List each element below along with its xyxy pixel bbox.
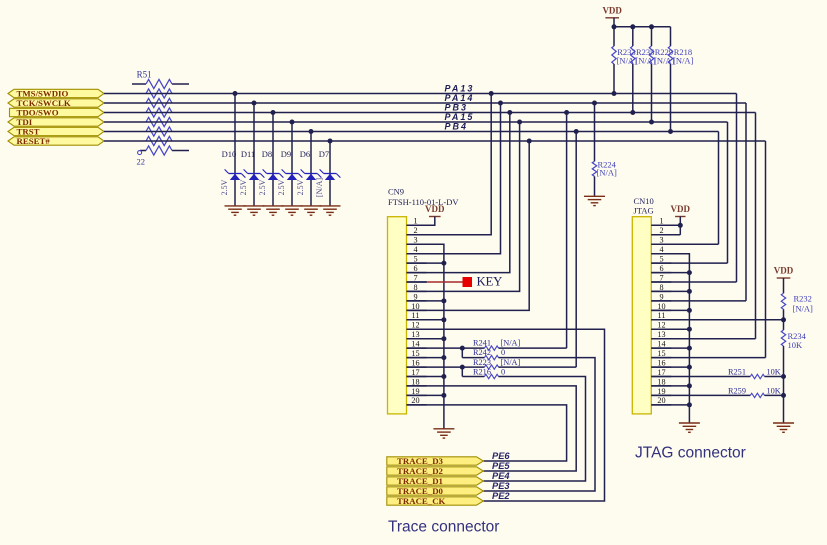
svg-text:R242: R242 bbox=[473, 348, 491, 357]
svg-text:VDD: VDD bbox=[774, 266, 794, 276]
wire CN9 pin18 to TRACE_D2 bbox=[407, 386, 577, 471]
svg-text:Trace connector: Trace connector bbox=[388, 519, 499, 536]
wire CN9 pin20 to TRACE_D3 bbox=[407, 405, 567, 461]
svg-text:JTAG: JTAG bbox=[634, 206, 654, 216]
svg-text:PE3: PE3 bbox=[492, 481, 510, 491]
resistor R218 [N/A] bbox=[670, 27, 672, 46]
svg-text:0: 0 bbox=[501, 348, 505, 357]
net label flag TDO/SWO bbox=[10, 108, 105, 116]
ground for R232/R234 rail bbox=[773, 422, 794, 424]
power symbol VDD (right) bbox=[777, 277, 791, 279]
svg-text:FTSH-110-01-L-DV: FTSH-110-01-L-DV bbox=[388, 197, 459, 207]
svg-text:20: 20 bbox=[411, 396, 419, 405]
branch wire pin14 to R242 bbox=[461, 348, 463, 358]
wire CN9 pin6 to PB3 column bbox=[407, 113, 510, 273]
wire CN10 pin5 from TDI column bbox=[651, 262, 727, 264]
svg-text:TDI: TDI bbox=[17, 117, 33, 127]
svg-text:R232: R232 bbox=[794, 294, 812, 304]
ground for CN10 bbox=[679, 422, 700, 424]
svg-text:12: 12 bbox=[411, 321, 419, 330]
svg-text:8: 8 bbox=[413, 283, 417, 292]
svg-text:KEY: KEY bbox=[477, 275, 503, 289]
zener diode D9 bbox=[290, 120, 295, 125]
svg-text:VDD: VDD bbox=[425, 204, 445, 214]
svg-text:9: 9 bbox=[659, 292, 663, 301]
wire row PA13 (TMS/SWDIO) bbox=[104, 93, 737, 95]
ground for D10 bbox=[225, 205, 246, 207]
wire CN10 pin3 from TRST column bbox=[651, 243, 718, 245]
net label flag TMS/SWDIO bbox=[8, 89, 104, 97]
power symbol VDD (top) bbox=[605, 17, 619, 19]
svg-text:12: 12 bbox=[657, 321, 665, 330]
svg-text:5: 5 bbox=[413, 255, 417, 264]
wire CN9 pin17 to ground rail bbox=[407, 376, 444, 378]
svg-text:4: 4 bbox=[659, 245, 663, 254]
svg-text:TRACE_D2: TRACE_D2 bbox=[397, 466, 444, 476]
svg-text:[N/A]: [N/A] bbox=[793, 304, 813, 314]
resistor R229 [N/A] bbox=[649, 24, 654, 29]
wire CN9 pin1 to VDD bbox=[407, 217, 435, 226]
wire CN9 pin19 to ground rail bbox=[407, 394, 444, 396]
svg-text:D11: D11 bbox=[241, 149, 255, 159]
wire CN9 pin13 to ground rail bbox=[407, 338, 444, 340]
svg-text:TMS/SWDIO: TMS/SWDIO bbox=[17, 89, 69, 99]
svg-text:D8: D8 bbox=[262, 149, 272, 159]
wire R242 to TRACE_D0 bbox=[483, 358, 595, 491]
zener diode D6 bbox=[309, 129, 314, 134]
svg-text:8: 8 bbox=[659, 283, 663, 292]
svg-text:0: 0 bbox=[501, 367, 505, 376]
zener diode D7 bbox=[328, 139, 333, 144]
net label flag TRACE_D2 bbox=[387, 467, 484, 475]
wire CN9 pin15 to ground rail bbox=[407, 357, 444, 359]
CN10 pin stubs bbox=[651, 224, 671, 226]
svg-text:1: 1 bbox=[659, 217, 663, 226]
zener diode D11 bbox=[252, 101, 257, 106]
svg-text:2.5V: 2.5V bbox=[239, 179, 248, 195]
svg-text:VDD: VDD bbox=[671, 204, 691, 214]
wire CN10 pin13 from TDO column bbox=[651, 338, 755, 340]
svg-text:VDD: VDD bbox=[602, 5, 622, 15]
resistor R224 [N/A] pull-down bbox=[592, 101, 597, 106]
wire CN9 pin3 to ground rail bbox=[407, 244, 444, 429]
svg-text:R259: R259 bbox=[728, 387, 746, 396]
wire CN10 pin17 through R251 bbox=[651, 376, 750, 378]
wire CN10 pin4 to ground rail bbox=[651, 254, 689, 423]
wire CN9 pin5 to ground rail bbox=[407, 262, 444, 264]
net label flag TDI bbox=[8, 118, 104, 126]
svg-text:[N/A]: [N/A] bbox=[501, 358, 521, 367]
connector CN9 body bbox=[388, 217, 407, 414]
ground for CN9 bbox=[433, 428, 454, 430]
svg-text:4: 4 bbox=[413, 245, 417, 254]
resistor R241 [N/A] bbox=[485, 346, 499, 350]
svg-text:2.5V: 2.5V bbox=[220, 179, 229, 195]
wire CN9 pin7 KEY bbox=[407, 281, 428, 283]
svg-text:11: 11 bbox=[412, 311, 420, 320]
svg-text:[N/A]: [N/A] bbox=[597, 168, 617, 178]
svg-text:6: 6 bbox=[659, 264, 663, 273]
wire row RESET# bbox=[104, 140, 766, 142]
resistor R216 0 bbox=[462, 376, 484, 378]
svg-text:PE6: PE6 bbox=[492, 451, 510, 461]
svg-text:13: 13 bbox=[657, 330, 665, 339]
wire R216 to TRACE_D1 bbox=[483, 377, 585, 482]
CN9 pin stubs bbox=[407, 224, 427, 226]
svg-text:16: 16 bbox=[411, 358, 419, 367]
resistor R232 [N/A] pull-up bbox=[783, 278, 785, 293]
svg-text:1: 1 bbox=[413, 217, 417, 226]
resistor R235 [N/A] bbox=[630, 24, 635, 29]
svg-text:CN9: CN9 bbox=[388, 187, 404, 197]
CN10 even pin ground dots bbox=[651, 272, 689, 274]
svg-text:D7: D7 bbox=[319, 149, 329, 159]
resistor R242 0 bbox=[462, 357, 484, 359]
svg-text:JTAG connector: JTAG connector bbox=[635, 445, 746, 462]
resistor R234 10K pull-down bbox=[783, 320, 785, 330]
svg-text:20: 20 bbox=[657, 396, 665, 405]
ground for D11 bbox=[244, 205, 265, 207]
zener diode D10 bbox=[233, 91, 238, 96]
power symbol VDD at CN10 pins 1-2 bbox=[675, 216, 685, 218]
svg-text:TDO/SWO: TDO/SWO bbox=[17, 108, 59, 118]
svg-text:PE2: PE2 bbox=[492, 491, 510, 501]
svg-text:11: 11 bbox=[658, 311, 666, 320]
svg-text:18: 18 bbox=[657, 377, 665, 386]
resistor R233 [N/A] bbox=[612, 24, 617, 29]
wire CN9 pin8 to PA15 column bbox=[407, 122, 520, 291]
svg-text:7: 7 bbox=[413, 273, 417, 282]
zener diode D8 bbox=[271, 110, 276, 115]
wire CN9 pin10 to RESET# column bbox=[407, 141, 530, 310]
VDD bus wire bbox=[614, 26, 671, 28]
wire row PA14 (TCK/SWCLK) bbox=[104, 102, 746, 104]
wire CN10 pin7 from TMS column bbox=[651, 281, 736, 283]
svg-text:10: 10 bbox=[657, 302, 665, 311]
net label flag TRACE_D1 bbox=[387, 477, 484, 485]
svg-text:PA14: PA14 bbox=[445, 93, 475, 103]
svg-text:15: 15 bbox=[411, 349, 419, 358]
wire CN10 pin11 to R232/R234 junction bbox=[651, 319, 783, 321]
svg-text:PE4: PE4 bbox=[492, 471, 510, 481]
svg-text:R251: R251 bbox=[728, 368, 746, 377]
svg-text:TCK/SWCLK: TCK/SWCLK bbox=[17, 98, 71, 108]
svg-text:7: 7 bbox=[659, 273, 663, 282]
ground for D8 bbox=[263, 205, 284, 207]
resistor R223 [N/A] bbox=[485, 365, 499, 369]
svg-text:9: 9 bbox=[413, 292, 417, 301]
svg-text:18: 18 bbox=[411, 377, 419, 386]
wire row PA15 (TDI) bbox=[104, 121, 728, 123]
svg-text:R223: R223 bbox=[473, 358, 491, 367]
svg-text:PA13: PA13 bbox=[445, 84, 475, 94]
svg-text:3: 3 bbox=[413, 236, 417, 245]
wire CN10 pin1/pin2 to VDD bbox=[679, 217, 681, 235]
wire CN9 pin4 to PA14 column bbox=[407, 103, 501, 254]
svg-text:22: 22 bbox=[137, 157, 146, 167]
svg-text:2.5V: 2.5V bbox=[258, 179, 267, 195]
net label flag TRACE_D0 bbox=[387, 487, 484, 495]
wire CN9 pin9 to ground rail bbox=[407, 300, 444, 302]
wire CN10 pin19 through R259 bbox=[651, 394, 750, 396]
ground for D7 bbox=[320, 205, 341, 207]
net label flag RESET# bbox=[8, 137, 104, 145]
svg-text:CN10: CN10 bbox=[634, 196, 654, 206]
svg-text:17: 17 bbox=[657, 368, 665, 377]
ground for D6 bbox=[301, 205, 322, 207]
svg-text:[N/A]: [N/A] bbox=[315, 178, 324, 197]
svg-text:PA15: PA15 bbox=[445, 112, 475, 122]
svg-text:19: 19 bbox=[657, 387, 665, 396]
ground for D9 bbox=[282, 205, 303, 207]
svg-text:[N/A]: [N/A] bbox=[501, 339, 521, 348]
net label flag TRACE_D3 bbox=[387, 457, 484, 465]
KEY marker square bbox=[463, 277, 473, 287]
svg-text:2: 2 bbox=[413, 226, 417, 235]
svg-text:16: 16 bbox=[657, 358, 665, 367]
svg-text:TRACE_D1: TRACE_D1 bbox=[397, 476, 443, 486]
svg-text:10K: 10K bbox=[788, 340, 804, 350]
svg-text:13: 13 bbox=[411, 330, 419, 339]
svg-text:5: 5 bbox=[659, 255, 663, 264]
svg-text:15: 15 bbox=[657, 349, 665, 358]
svg-text:TRACE_D3: TRACE_D3 bbox=[397, 456, 444, 466]
svg-text:14: 14 bbox=[657, 340, 665, 349]
svg-text:14: 14 bbox=[411, 340, 419, 349]
wire row PB3 (TDO/SWO) bbox=[104, 112, 756, 114]
svg-text:[N/A]: [N/A] bbox=[673, 56, 693, 66]
wire CN9 pin16 through R223 to PB4 bbox=[407, 366, 485, 368]
svg-text:17: 17 bbox=[411, 368, 419, 377]
net label flag TCK/SWCLK bbox=[8, 99, 104, 107]
svg-text:D10: D10 bbox=[222, 149, 237, 159]
svg-text:PB4: PB4 bbox=[445, 122, 469, 132]
wire CN9 pin2 to PA13 column bbox=[407, 94, 492, 235]
wire CN9 pin12 to TRACE_CK bbox=[407, 329, 605, 501]
svg-text:TRACE_CK: TRACE_CK bbox=[397, 496, 446, 506]
resistor R251 10K bbox=[750, 374, 764, 378]
svg-text:10: 10 bbox=[411, 302, 419, 311]
net label flag TRACE_CK bbox=[387, 497, 484, 505]
svg-text:D6: D6 bbox=[300, 149, 310, 159]
svg-text:PB3: PB3 bbox=[445, 103, 469, 113]
resistor R259 10K bbox=[750, 393, 764, 397]
net label flag TRST bbox=[8, 127, 104, 135]
svg-text:19: 19 bbox=[411, 387, 419, 396]
svg-text:D9: D9 bbox=[281, 149, 291, 159]
svg-text:RESET#: RESET# bbox=[17, 136, 51, 146]
svg-text:R51: R51 bbox=[137, 70, 152, 80]
wire row PB4 (TRST) bbox=[104, 131, 719, 133]
svg-text:2: 2 bbox=[659, 226, 663, 235]
svg-text:2.5V: 2.5V bbox=[296, 179, 305, 195]
svg-text:2.5V: 2.5V bbox=[277, 179, 286, 195]
ground for R224 bbox=[584, 195, 605, 197]
svg-text:TRST: TRST bbox=[17, 127, 40, 137]
svg-text:R241: R241 bbox=[473, 339, 491, 348]
branch wire pin16 to R216 bbox=[461, 367, 463, 376]
wire CN10 pin15 from RESET# column bbox=[651, 357, 765, 359]
wire CN9 pin11 to ground rail bbox=[407, 319, 444, 321]
svg-text:10K: 10K bbox=[767, 387, 781, 396]
svg-text:3: 3 bbox=[659, 236, 663, 245]
connector CN10 body bbox=[632, 217, 651, 414]
svg-text:PE5: PE5 bbox=[492, 461, 510, 471]
svg-text:10K: 10K bbox=[767, 368, 781, 377]
svg-text:TRACE_D0: TRACE_D0 bbox=[397, 486, 444, 496]
power symbol VDD at CN9 pin1 bbox=[429, 216, 441, 218]
svg-text:6: 6 bbox=[413, 264, 417, 273]
wire CN10 pin9 from TCK column bbox=[651, 300, 746, 302]
svg-text:R216: R216 bbox=[473, 367, 491, 376]
wire CN9 pin14 through R241 to PB3/SWO bbox=[407, 347, 485, 349]
